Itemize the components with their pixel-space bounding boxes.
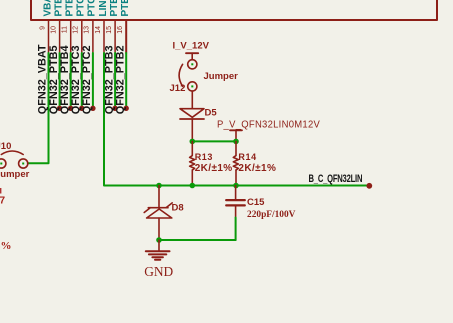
zener diode D8 [144, 203, 172, 240]
wire end dot B_C_QFN32LIN [366, 183, 372, 189]
wire C15 bottom green [235, 218, 237, 241]
jumper J10 pin 2 circle [19, 159, 28, 168]
supply P_V bar [230, 129, 242, 131]
resistor R13 [190, 141, 195, 185]
svg-text:LIN: LIN [98, 0, 109, 16]
pin 14 stub [103, 21, 105, 53]
diode D5 [180, 109, 204, 118]
svg-text:14: 14 [95, 26, 102, 34]
pin 15 stub [114, 21, 116, 53]
wire net QFN32_PTB5 [59, 53, 61, 108]
wire D5 to junction [191, 119, 193, 141]
svg-text:15: 15 [106, 26, 113, 34]
svg-text:R14: R14 [238, 152, 256, 162]
wire end dot pin16 [124, 106, 129, 111]
svg-text:P_V_QFN32LIN0M12V: P_V_QFN32LIN0M12V [217, 119, 320, 130]
wire net QFN32_PTB4 [70, 53, 72, 108]
pin 9 stub [48, 21, 50, 53]
partial label fragment left edge [0, 188, 1, 194]
svg-text:Jumper: Jumper [204, 71, 239, 82]
svg-text:16: 16 [117, 26, 124, 34]
jumper J10 pin 1 circle [0, 159, 6, 168]
wire end dot pin15 [112, 106, 117, 111]
svg-text:J12: J12 [170, 83, 186, 94]
jumper J10 arc [1, 151, 23, 155]
wire net LIN vertical long (pin 14) [104, 53, 369, 186]
svg-text:D8: D8 [172, 203, 184, 214]
svg-text:11: 11 [62, 26, 69, 33]
pin 16 stub [125, 21, 127, 53]
capacitor C15 plates [226, 199, 245, 201]
junction dot D8 bottom [156, 237, 162, 243]
svg-text:QFN32_PTB2: QFN32_PTB2 [114, 45, 126, 114]
wire end dot pin10 [57, 106, 62, 111]
wire end dot pin13 [90, 106, 95, 111]
jumper J12 pin 2 center dot [191, 85, 193, 87]
wire D8 to C15 bottom [159, 239, 236, 241]
svg-text:J10: J10 [0, 141, 11, 152]
svg-text:2K/±1%: 2K/±1% [195, 163, 233, 174]
svg-text:B_C_QFN32LIN: B_C_QFN32LIN [309, 173, 363, 184]
jumper J12 pin 1 center dot [191, 63, 193, 65]
svg-text:12: 12 [73, 26, 80, 34]
wire net QFN32_PTC2 [92, 53, 94, 108]
jumper J10 pin 1 center dot [0, 163, 2, 165]
junction dot R13 bottom [190, 183, 196, 189]
wire net QFN32_PTB2 [125, 53, 127, 108]
svg-text:7: 7 [0, 196, 6, 207]
supply I_V_12V stub [191, 53, 193, 60]
svg-text:13: 13 [84, 26, 91, 34]
junction dot D8 top [156, 183, 162, 189]
junction dot A [190, 139, 196, 145]
wire D8 to GND [158, 240, 160, 250]
wire end dot pin11 [68, 106, 73, 111]
jumper J12 pin 1 circle [188, 60, 197, 69]
IC U? box bottom edge [31, 0, 437, 20]
pin 12 stub [81, 21, 83, 53]
svg-text:Jumper: Jumper [0, 169, 30, 180]
pin 11 stub [70, 21, 72, 53]
svg-text:PTC3: PTC3 [76, 0, 87, 17]
pin 13 stub [92, 21, 94, 53]
capacitor C15 stub bottom [235, 205, 237, 217]
junction dot B [233, 139, 239, 145]
svg-text:2K/±1%: 2K/±1% [238, 163, 276, 174]
supply I_V_12V bar [186, 52, 198, 54]
svg-text:PTB2: PTB2 [120, 0, 131, 17]
svg-text:D5: D5 [205, 108, 218, 119]
svg-text:10: 10 [50, 26, 57, 34]
svg-text:5%: 5% [0, 240, 12, 252]
ground GND symbol [146, 251, 170, 259]
svg-text:GND: GND [144, 264, 173, 279]
svg-text:PTC2: PTC2 [87, 0, 98, 17]
supply P_V stub [235, 130, 237, 141]
svg-text:220pF/100V: 220pF/100V [247, 210, 296, 220]
resistor R14 [233, 141, 238, 185]
wire net QFN32_VBAT vertical [28, 53, 49, 163]
svg-text:C15: C15 [247, 197, 265, 208]
capacitor C15 stub top [235, 186, 237, 200]
wire end dot pin12 [79, 106, 84, 111]
wire junction to D8 [158, 186, 160, 208]
wire net QFN32_PTC3 [81, 53, 83, 108]
jumper J12 arc [179, 64, 183, 86]
junction dot R14 bottom [233, 183, 239, 189]
pin 10 stub [59, 21, 61, 53]
svg-text:PTB5: PTB5 [53, 0, 64, 17]
wire horizontal D5 junction to R14 top [192, 140, 236, 142]
svg-text:R13: R13 [195, 152, 213, 162]
svg-text:9: 9 [39, 26, 46, 30]
svg-text:VBAT: VBAT [42, 0, 53, 17]
svg-text:I_V_12V: I_V_12V [173, 40, 210, 51]
wire net QFN32_PTB3 [114, 53, 116, 108]
svg-text:PTB3: PTB3 [109, 0, 120, 17]
svg-text:QFN32_PTC2: QFN32_PTC2 [81, 45, 93, 114]
svg-text:PTB4: PTB4 [65, 0, 76, 17]
wire J12 to D5 [191, 91, 193, 109]
jumper J12 pin 2 circle [188, 82, 197, 91]
jumper J10 pin 2 center dot [22, 163, 24, 165]
